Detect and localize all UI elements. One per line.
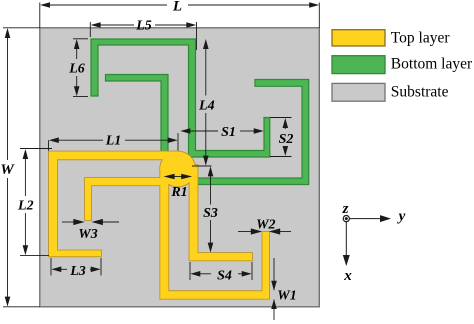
dimension W: [3, 28, 40, 307]
svg-text:L6: L6: [68, 62, 85, 77]
dimension L2: [20, 149, 52, 256]
legend: substrate swatch: [332, 83, 385, 101]
top layer traces (yellow), outline pass: [49, 152, 269, 299]
svg-text:x: x: [343, 268, 352, 284]
dimension W3: [62, 221, 119, 223]
dimension L1: [49, 133, 179, 151]
svg-text:R1: R1: [170, 185, 187, 200]
svg-text:W2: W2: [256, 218, 275, 233]
dimension S3: [210, 176, 212, 245]
dimension S2: [270, 118, 292, 157]
legend: top layer swatch: [332, 30, 385, 46]
dimension L: [40, 3, 320, 28]
dimension L5: [90, 22, 196, 50]
svg-text:Substrate: Substrate: [391, 84, 449, 101]
svg-text:S1: S1: [221, 125, 236, 140]
svg-text:Top layer: Top layer: [391, 30, 451, 47]
svg-text:y: y: [397, 209, 406, 225]
svg-text:L1: L1: [105, 134, 122, 149]
legend: bottom layer swatch: [332, 56, 385, 74]
svg-text:L5: L5: [135, 19, 152, 34]
svg-text:z: z: [342, 201, 349, 217]
svg-text:L: L: [172, 0, 182, 15]
dimension S1: [190, 130, 254, 132]
coordinate axes: [343, 216, 381, 257]
dimension L3: [51, 258, 101, 276]
svg-text:L4: L4: [198, 99, 215, 114]
dimension R1: [164, 174, 175, 180]
bottom layer trace: top-right hook: [193, 80, 309, 185]
svg-text:L3: L3: [69, 264, 86, 279]
svg-text:Bottom layer: Bottom layer: [391, 56, 473, 73]
dimension L4: [192, 48, 212, 166]
svg-text:W: W: [0, 162, 15, 178]
bottom layer trace: inner L arm: [106, 75, 169, 154]
svg-text:S4: S4: [217, 268, 232, 283]
top layer traces (yellow), fill pass to hide interior strokes: [49, 152, 269, 299]
svg-text:L2: L2: [17, 199, 34, 214]
dimension W2: [238, 231, 291, 233]
svg-text:S3: S3: [203, 206, 218, 221]
dimension L6: [73, 39, 88, 97]
svg-text:S2: S2: [279, 132, 294, 147]
substrate: [40, 28, 320, 307]
svg-text:W3: W3: [78, 227, 97, 242]
dimension S4: [190, 262, 252, 280]
svg-text:W1: W1: [277, 288, 296, 303]
bottom layer trace: top-left outer spiral arm with S2 stub: [91, 39, 270, 157]
dimension W1: [273, 258, 275, 320]
